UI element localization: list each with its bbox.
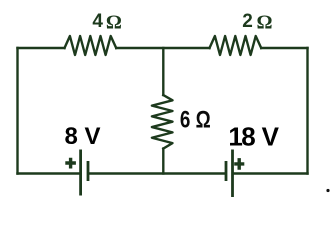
svg-text:4Ω: 4Ω bbox=[92, 11, 122, 33]
battery B2 18V short plate (-) bbox=[225, 161, 228, 181]
wire middle branch upper bbox=[162, 48, 164, 95]
svg-text:8 V: 8 V bbox=[65, 123, 101, 150]
stray dot punctuation bbox=[326, 189, 329, 192]
wire top-left segment bbox=[18, 47, 65, 49]
resistor R2 2ohm bbox=[210, 36, 262, 55]
wire middle branch lower bbox=[162, 149, 164, 174]
wire top-right segment bbox=[261, 47, 307, 49]
battery B2 plus sign bbox=[234, 158, 244, 170]
wire bottom-left segment bbox=[18, 172, 80, 174]
battery B1 8V short plate (-) bbox=[87, 161, 90, 181]
wire left side bbox=[16, 48, 18, 174]
resistor R1 4ohm bbox=[65, 36, 117, 55]
battery B1 plus sign bbox=[65, 158, 76, 169]
resistor R3 6ohm vertical bbox=[152, 95, 173, 149]
battery B1 8V long plate (+) bbox=[79, 150, 82, 196]
wire bottom-middle segment bbox=[89, 172, 225, 174]
svg-text:18V: 18V bbox=[228, 121, 279, 151]
svg-text:6 Ω: 6 Ω bbox=[180, 107, 211, 134]
battery B2 18V long plate (+) bbox=[231, 150, 234, 198]
wire right side bbox=[306, 48, 308, 174]
wire bottom-right segment bbox=[234, 172, 308, 174]
svg-text:2Ω: 2Ω bbox=[242, 11, 272, 33]
wire top-middle segment bbox=[116, 47, 209, 49]
